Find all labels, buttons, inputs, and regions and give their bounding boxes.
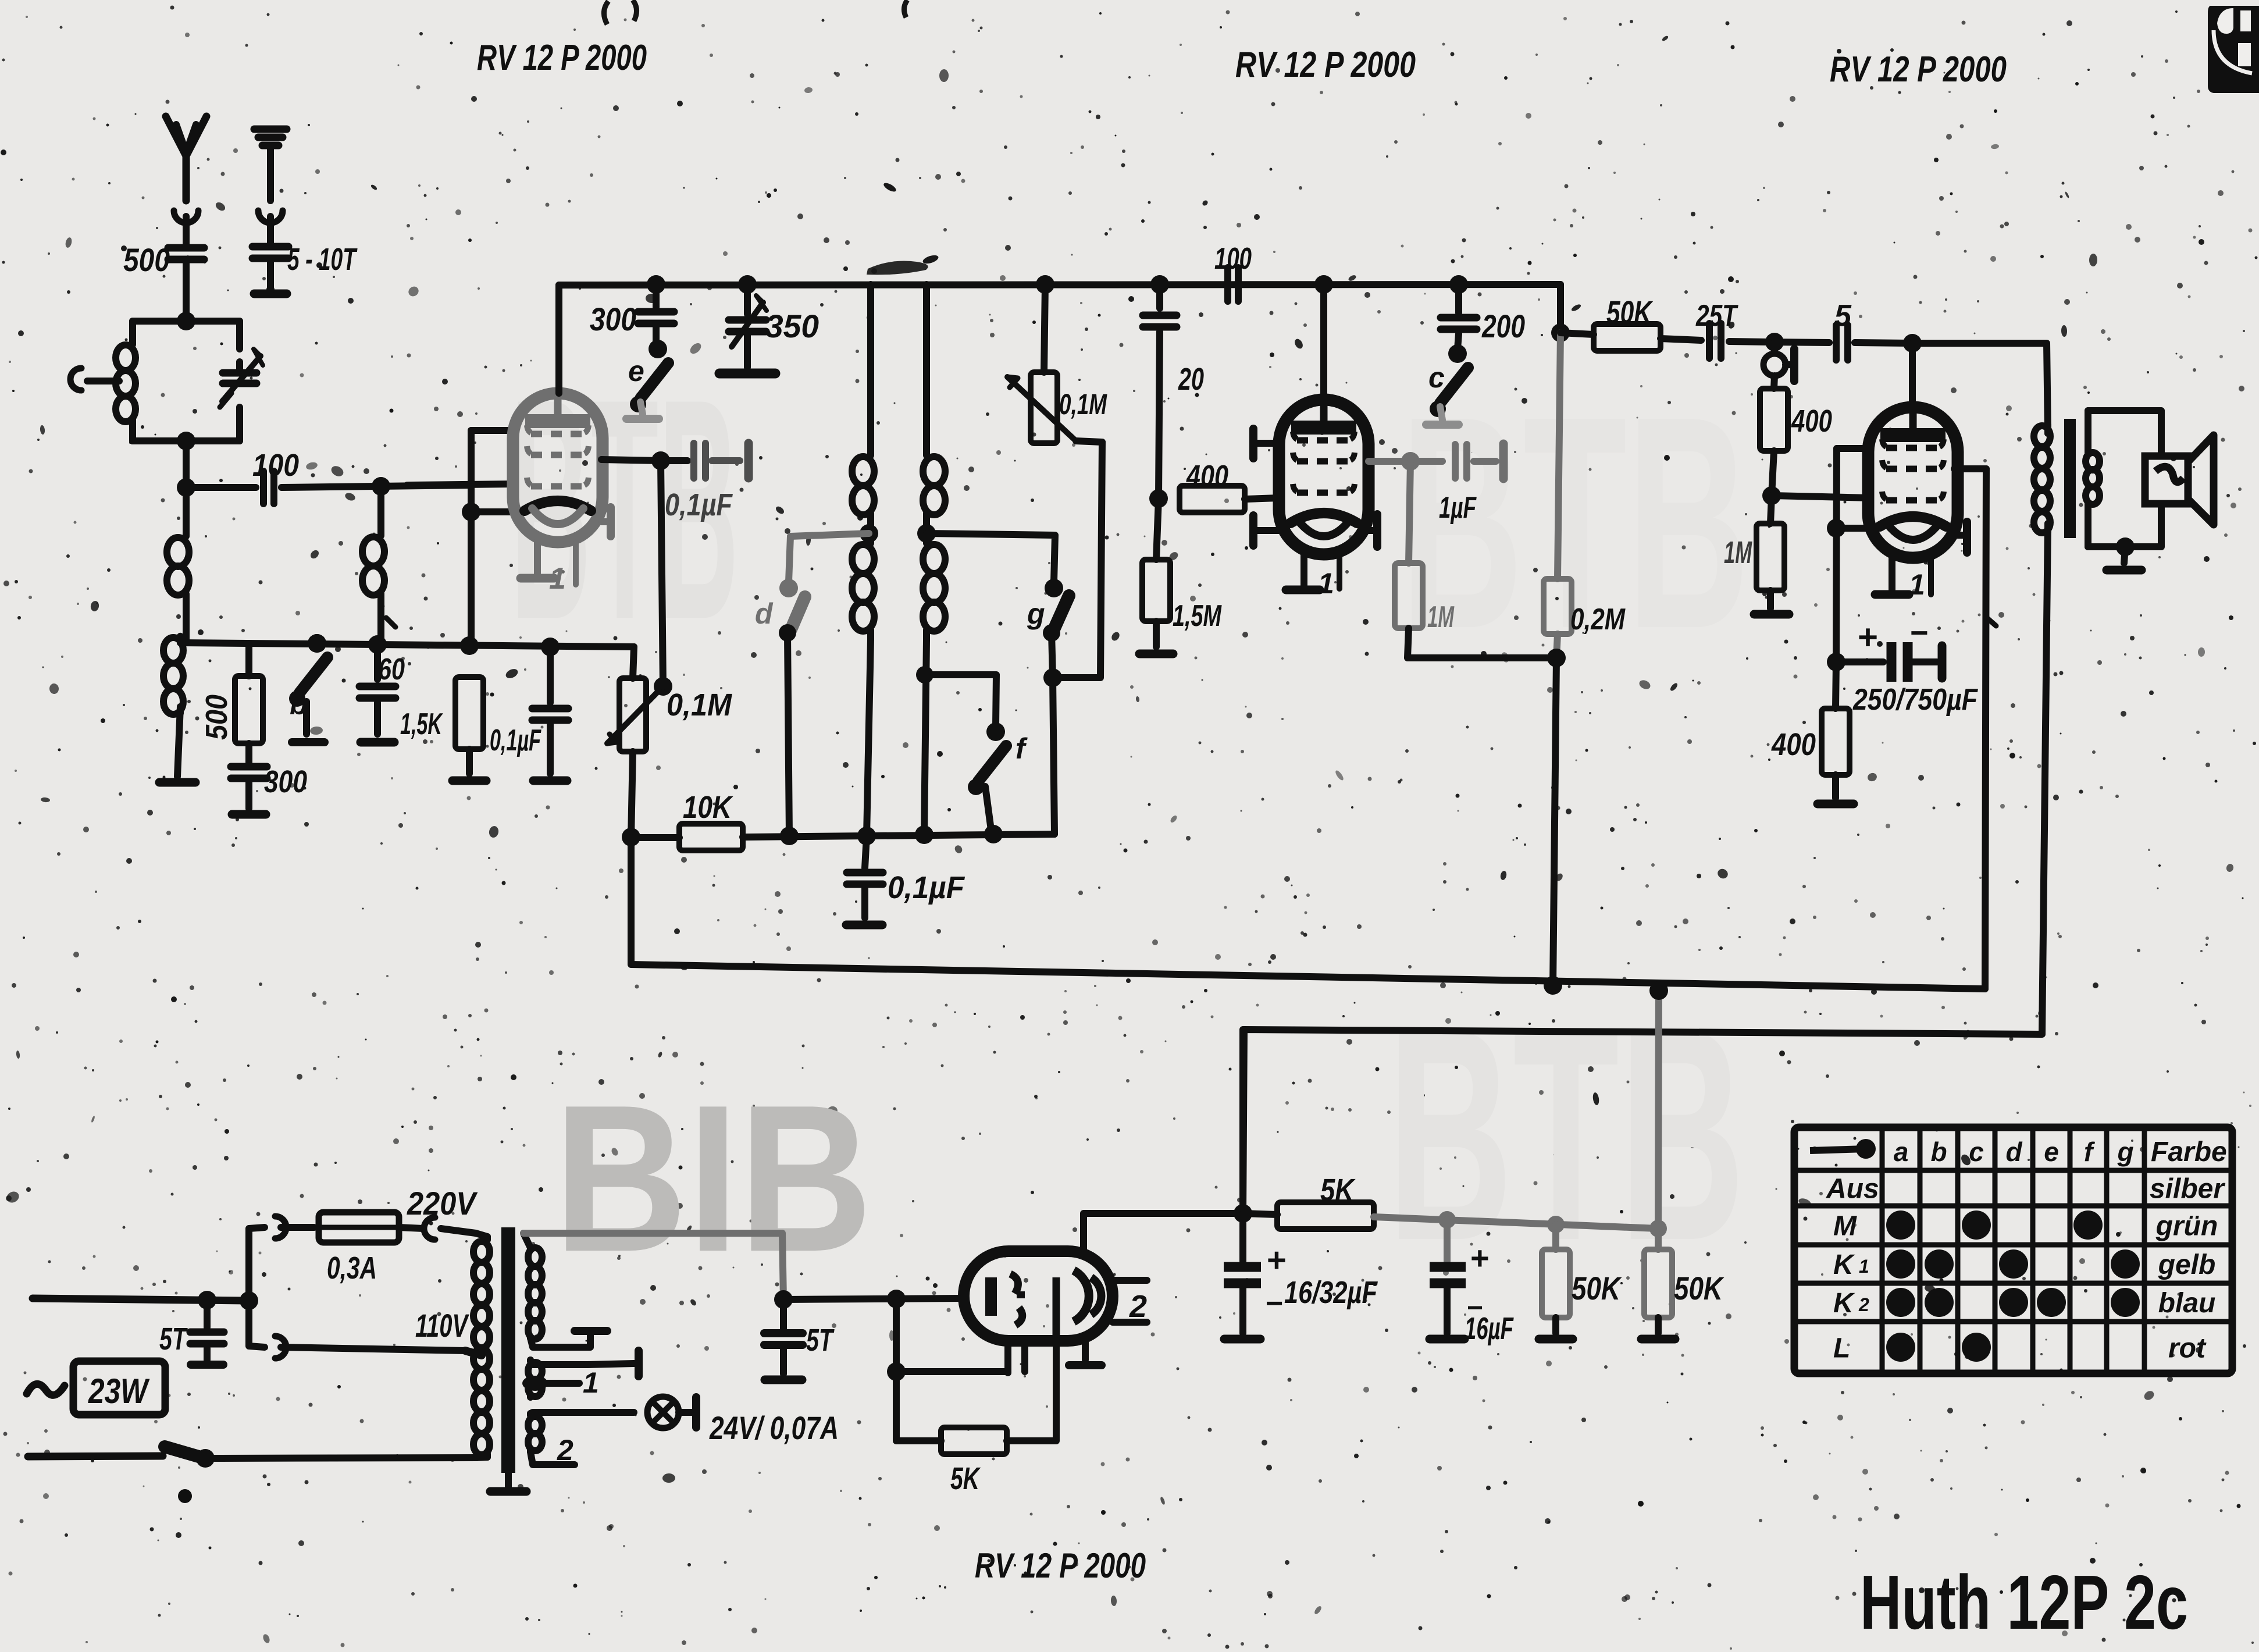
resistor 0,2M (gray)	[1544, 579, 1572, 634]
capacitor 5T (HT filter)	[780, 1299, 787, 1329]
svg-text:BIB: BIB	[554, 1062, 872, 1295]
switch g	[1045, 579, 1063, 597]
antenna	[166, 116, 186, 201]
svg-text:5K: 5K	[1320, 1173, 1356, 1208]
phone jack	[1771, 342, 1778, 352]
svg-text:50K: 50K	[1606, 294, 1654, 330]
svg-text:60: 60	[378, 653, 405, 686]
wire coil A tap to switch d	[790, 533, 869, 536]
node cathode junction tube1	[462, 503, 480, 521]
cathode bus of tube1	[180, 643, 634, 647]
node 300 cap	[647, 275, 665, 294]
resistor 400 (screen feed)	[1774, 376, 1775, 389]
svg-text:c: c	[1428, 361, 1445, 394]
electrolytic 16uF	[1444, 1220, 1451, 1261]
node bus A	[1544, 976, 1562, 995]
svg-text:BTB: BTB	[1387, 966, 1745, 1304]
vertical B+ riser	[1239, 1030, 1246, 1213]
resistor 50K (divider a)	[1552, 1224, 1559, 1249]
plug connector earth lead	[258, 211, 283, 223]
secondary heater winding 1	[527, 1360, 534, 1362]
svg-text:0,1µF: 0,1µF	[888, 870, 965, 905]
switch b	[308, 634, 326, 653]
tube V2 heater leads	[1300, 554, 1307, 586]
bias coil below node	[377, 486, 384, 536]
tube V2 cathode	[1291, 513, 1357, 523]
tube V1 anode lead to HT rail	[555, 285, 562, 393]
node speaker ground	[2116, 537, 2135, 556]
svg-text:Aus: Aus	[1826, 1174, 1879, 1205]
secondary bottom wire to speaker	[2088, 504, 2161, 547]
plug connector 220V left	[275, 1216, 286, 1238]
BTB logo stamp	[2208, 6, 2259, 93]
fuse 0,3A	[319, 1212, 399, 1242]
node mains/5T	[198, 1291, 216, 1309]
svg-text:g: g	[2117, 1137, 2133, 1167]
tube V4 anode lead to B+	[1084, 1213, 1243, 1251]
svg-text:RV 12 P 2000: RV 12 P 2000	[1830, 49, 2007, 90]
svg-text:24V/ 0,07A: 24V/ 0,07A	[709, 1409, 839, 1446]
svg-text:+: +	[1858, 618, 1878, 657]
AC symbol	[27, 1384, 65, 1395]
node branch	[240, 1291, 258, 1310]
node coilA	[857, 827, 876, 845]
tank cap trimmer arrow	[222, 356, 261, 401]
secondary heater winding 2	[527, 1414, 534, 1416]
svg-text:1: 1	[1859, 1256, 1869, 1277]
plug connector 110V	[275, 1336, 286, 1358]
svg-text:Farbe: Farbe	[2151, 1137, 2227, 1167]
tube V3 grid2 line to right riser	[1954, 465, 1986, 472]
vertical bus left of tube3	[1836, 448, 1837, 662]
tube V3 grids	[1886, 445, 1940, 451]
tube V3 anode	[1880, 428, 1946, 442]
HT rail top	[559, 284, 1560, 285]
resistor 1,5M grid leak	[1156, 499, 1159, 560]
node 0,2M bottom	[1547, 649, 1566, 667]
capacitor 100 (antenna coupling)	[263, 471, 274, 504]
svg-text:400: 400	[1791, 404, 1832, 439]
svg-text:RV 12 P 2000: RV 12 P 2000	[477, 38, 647, 78]
node tube3 grid	[1762, 486, 1781, 505]
node at coil2 top	[372, 477, 390, 496]
svg-text:0,2M: 0,2M	[1570, 603, 1626, 636]
vertical grid bus left of tube1	[468, 430, 475, 643]
triode/pentode tube V2 RV12P2000 envelope	[1279, 400, 1369, 554]
capacitor 500 (antenna series)	[168, 248, 204, 259]
tube V3 anode lead	[1909, 343, 1916, 407]
resistor 10K line	[622, 828, 640, 846]
resistor 5K (bleeder)	[941, 1427, 1007, 1454]
riser grid2 to ground bus A	[1985, 469, 1986, 989]
tube V4 bottom leads	[1004, 1341, 1011, 1373]
node 1541	[887, 1290, 906, 1308]
svg-text:b: b	[1930, 1137, 1947, 1167]
wire g node to pot 0,1M bottom riser	[1053, 442, 1102, 678]
heater tap arrow	[522, 1376, 548, 1391]
node f	[984, 825, 1003, 843]
output transformer secondary	[2085, 411, 2091, 453]
svg-text:blau: blau	[2158, 1288, 2216, 1319]
svg-text:2: 2	[1129, 1289, 1147, 1324]
capacitor 5T (mains filter)	[204, 1300, 211, 1327]
wire 1M bottom to 0,2M node	[1408, 628, 1556, 658]
mains lead upper	[33, 1298, 249, 1301]
tube V3 cathode terminal	[1954, 532, 1964, 539]
resistor 50K (divider b)	[1655, 1229, 1662, 1249]
svg-text:100: 100	[1214, 242, 1252, 276]
svg-text:0,3A: 0,3A	[327, 1251, 377, 1286]
wire coil A bottom to 10K line	[867, 640, 871, 836]
coupling capacitor 0,1uF (tube1 anode circuit)	[694, 443, 706, 478]
svg-text:350: 350	[765, 308, 819, 344]
wire cathode	[1836, 525, 1872, 532]
svg-text:1: 1	[1909, 568, 1925, 601]
wire to output transformer	[1912, 343, 2048, 433]
switch position table	[1794, 1127, 2232, 1373]
svg-text:L: L	[1833, 1333, 1850, 1364]
svg-text:0,1µF: 0,1µF	[665, 487, 733, 522]
svg-text:200: 200	[1481, 308, 1525, 344]
node coilB	[915, 825, 933, 844]
svg-text:400: 400	[1771, 727, 1816, 762]
node grid line	[177, 478, 195, 497]
wire to tube4 grid	[783, 1298, 964, 1299]
node 50K b	[1649, 1220, 1667, 1237]
svg-text:grün: grün	[2155, 1211, 2218, 1242]
svg-text:silber: silber	[2150, 1174, 2225, 1205]
transformer core ground	[505, 1473, 512, 1487]
trimmer capacitor 5-10T	[267, 216, 274, 243]
switch d	[779, 579, 798, 597]
svg-text:K: K	[1833, 1249, 1855, 1280]
IF coil B (detector grid)	[923, 284, 930, 451]
svg-text:110V: 110V	[415, 1307, 469, 1344]
svg-text:gelb: gelb	[2158, 1249, 2216, 1280]
wire cap5 to anode node	[1855, 343, 1912, 343]
wire switch d to 10K line	[788, 633, 789, 836]
svg-text:16/32µF: 16/32µF	[1284, 1275, 1378, 1310]
riser from bus A to B+ line (gray)	[1658, 991, 1659, 1229]
resistor 5K (smoothing)	[1243, 1213, 1277, 1215]
node grid2 tube2	[1401, 452, 1420, 471]
svg-text:1,5M: 1,5M	[1173, 599, 1222, 633]
node IF coil B tap	[917, 524, 936, 543]
tube V4 cathode lead vertical	[1053, 1277, 1060, 1341]
pot 0,1M arrow	[1007, 377, 1076, 441]
node tank bottom	[177, 432, 195, 450]
node tube3 anode	[1903, 334, 1922, 353]
svg-text:1M: 1M	[1427, 600, 1455, 634]
variable capacitor 350	[744, 284, 751, 314]
tank variable capacitor	[223, 373, 256, 383]
triode/pentode tube V1 RV12P2000 envelope	[513, 393, 603, 542]
svg-text:rot: rot	[2168, 1333, 2207, 1364]
tube V2 anode lead	[1320, 284, 1327, 400]
node 1,5K	[460, 636, 479, 655]
electrolytic 16/32uF	[1239, 1213, 1246, 1261]
svg-text:e: e	[628, 355, 644, 387]
svg-text:Huth 12P 2c: Huth 12P 2c	[1860, 1560, 2188, 1645]
tube V3 cathode	[1880, 517, 1946, 526]
speaker	[2145, 456, 2188, 504]
wire cap to terminal	[712, 457, 740, 464]
svg-text:+: +	[1470, 1240, 1490, 1276]
svg-text:−: −	[1266, 1287, 1283, 1320]
tube V2 grid3 terminal	[1257, 527, 1279, 534]
wire 50K to 25T cap	[1661, 339, 1701, 340]
svg-text:c: c	[1969, 1137, 1984, 1167]
tube V4 heater ground	[1082, 1341, 1089, 1360]
svg-text:23W: 23W	[88, 1372, 149, 1411]
riser wiper to grid2 line	[661, 461, 663, 686]
node rectifier input	[774, 1290, 793, 1309]
svg-text:2: 2	[1858, 1294, 1869, 1315]
node 16uF	[1438, 1211, 1456, 1229]
antenna plug connector	[174, 211, 198, 223]
node wiper to grid2 riser	[654, 677, 672, 696]
potentiometer 0,1M (regeneration)	[633, 647, 634, 678]
svg-text:d: d	[755, 597, 774, 630]
tube V3 grid1 line to left bus	[1837, 445, 1868, 452]
capacitor 25T	[1709, 323, 1721, 358]
svg-text:b: b	[290, 688, 308, 721]
svg-text:5T: 5T	[159, 1322, 188, 1357]
capacitor 300 (padding)	[653, 284, 660, 307]
table header arrow symbol	[1810, 1149, 1866, 1151]
svg-text:100: 100	[252, 448, 299, 483]
svg-text:300: 300	[590, 301, 636, 337]
resistor 400 (cathode bias tube3)	[1836, 662, 1836, 708]
pickup coil terminal arc	[70, 368, 81, 390]
ground bus A to right section	[631, 838, 1985, 989]
tube V4 inner dashes	[1010, 1274, 1022, 1325]
svg-text:5K: 5K	[950, 1461, 981, 1496]
wire grid3 into tube1	[407, 484, 514, 485]
resistor 50K (coupling)	[1560, 333, 1594, 334]
wire antenna to cap 500	[183, 216, 190, 244]
svg-text:400: 400	[1186, 460, 1228, 493]
node 0,1uF	[541, 638, 560, 656]
coil to ground left	[177, 636, 184, 643]
capacitor 100 (series in HT rail)	[1228, 268, 1238, 301]
power transformer core	[501, 1227, 515, 1473]
wire jack node to cap 5	[1775, 342, 1829, 343]
wire grid node into tube3	[1772, 496, 1870, 498]
capacitor 20	[1156, 284, 1163, 308]
svg-text:2: 2	[557, 1434, 573, 1466]
capacitor 0,1uF (AVC)	[865, 836, 867, 868]
wire tube1 grid1 stub	[471, 427, 514, 434]
wire cathode circuit	[896, 1299, 1008, 1372]
wire 110V tap arrow to transformer	[281, 1347, 465, 1351]
node 50K feed	[1551, 323, 1570, 342]
svg-text:1: 1	[1318, 567, 1334, 600]
node bus A riser	[1649, 981, 1668, 1000]
power rating box 23W	[73, 1361, 165, 1415]
node 250/750uF	[1827, 653, 1845, 671]
mains switch lever	[165, 1447, 201, 1457]
svg-text:500: 500	[200, 695, 234, 740]
node d	[780, 827, 799, 845]
svg-text:16µF: 16µF	[1465, 1311, 1514, 1346]
svg-text:50K: 50K	[1674, 1270, 1724, 1306]
capacitor 60	[374, 645, 381, 679]
svg-text:50K: 50K	[1572, 1270, 1622, 1306]
earth symbol (5-10T branch)	[267, 147, 274, 201]
tube V1 cathode side terminal	[601, 518, 611, 525]
svg-text:RV 12 P 2000: RV 12 P 2000	[975, 1546, 1146, 1585]
tube V2 anode	[1291, 421, 1356, 435]
svg-text:M: M	[1833, 1211, 1857, 1242]
wire primary bottom to B+ rail corner	[1243, 524, 2048, 1213]
tube V1 heater lead + ground	[534, 542, 541, 574]
svg-text:300: 300	[264, 764, 307, 799]
wire pot bottom to riser	[1076, 441, 1102, 442]
switch label circle	[178, 1489, 192, 1503]
node grid2 / pot wiper	[651, 451, 670, 470]
tube V2 grid1 terminal	[1257, 440, 1279, 447]
wire pot bottom to 10K	[631, 752, 633, 838]
tube V1 cathode	[525, 501, 591, 511]
svg-text:1: 1	[583, 1366, 599, 1399]
tube V1 grids	[531, 431, 585, 437]
svg-text:1,5K: 1,5K	[400, 707, 443, 741]
wire 400 to grid node	[1772, 451, 1774, 496]
resistor 500 (vertical)	[245, 643, 252, 676]
svg-text:5T: 5T	[806, 1323, 835, 1358]
B+ line from HT winding (gray)	[523, 1233, 783, 1299]
svg-text:0,1M: 0,1M	[667, 688, 732, 722]
antenna tank circuit loop	[133, 318, 240, 325]
wire coil B tap to switch g riser	[927, 533, 1055, 582]
table dots	[1886, 1210, 1915, 1240]
node 350 cap	[738, 275, 757, 294]
svg-text:1: 1	[549, 562, 566, 596]
tube V3 heater arc	[1887, 524, 1939, 540]
capacitor 5	[1836, 325, 1848, 360]
wire 5K to tube cathode riser	[1007, 1341, 1056, 1441]
smudge	[867, 261, 928, 275]
wire cathode to left bus	[471, 508, 515, 515]
switch e	[653, 327, 660, 344]
node cap60	[368, 635, 387, 654]
svg-text:1µF: 1µF	[1439, 491, 1477, 525]
svg-text:1M: 1M	[1724, 535, 1752, 570]
tube V4 grid bar	[985, 1277, 997, 1316]
tube V1 grid2 line to coupling cap	[601, 460, 661, 461]
tube V2 cathode terminal	[1369, 527, 1377, 534]
dial lamp 24V 0,07A	[647, 1397, 679, 1428]
tick mark	[1987, 618, 1996, 626]
wire cap500 to tuned circuit	[183, 263, 190, 321]
svg-text:RV 12 P 2000: RV 12 P 2000	[1235, 45, 1416, 85]
node B+ 2137	[1234, 1204, 1252, 1223]
tube V2 grids	[1297, 437, 1351, 444]
wire tank bottom to grid node	[183, 441, 190, 487]
tube V1 anode	[525, 414, 590, 428]
output transformer primary	[2044, 425, 2051, 434]
node HT rail / pot 0,1M	[1036, 275, 1054, 294]
wire to node jack	[1729, 341, 1775, 342]
output transformer core	[2064, 419, 2076, 538]
wire cap100 to tube1 grid	[282, 485, 471, 487]
wire grid node down to 1M	[1770, 496, 1772, 524]
triode/pentode tube V3 RV12P2000 envelope	[1868, 407, 1958, 558]
B+ distribution line (gray)	[1374, 1217, 1658, 1229]
switch c	[1448, 344, 1467, 363]
svg-text:−: −	[1910, 615, 1929, 650]
node grid stopper 400	[1149, 489, 1168, 508]
plug connector 220V right	[399, 1227, 423, 1229]
tube V4 side stubs and pin label 2	[1113, 1277, 1147, 1284]
tube V3 heater leads	[1889, 558, 1895, 590]
tube V2 heater arc	[1298, 521, 1349, 536]
tube V1 heater arc	[532, 508, 583, 524]
riser 10K line to switch g node	[1053, 678, 1054, 834]
wire coil B bottom to 10K line	[924, 640, 927, 834]
resistor 400 (grid)	[1180, 486, 1245, 512]
pot 0,1M wiper arrow	[607, 686, 663, 743]
rectifier tube V4 RV12P2000 envelope (horizontal)	[964, 1251, 1113, 1341]
node 2358	[887, 1362, 906, 1381]
svg-text:220V: 220V	[407, 1185, 478, 1222]
secondary top wire to speaker	[2088, 411, 2161, 455]
node jack	[1765, 333, 1784, 351]
svg-text:25T: 25T	[1695, 299, 1738, 333]
capacitor 300 below resistor 500	[245, 743, 252, 763]
stray mark parenthesis	[604, 1, 608, 24]
tube V2 grid2 line (gray) to 1uF	[1369, 458, 1410, 465]
IF coil A (tube1 anode load)	[867, 284, 874, 451]
corner HT rail down to 50K	[1557, 284, 1564, 333]
node antenna/tank top	[177, 312, 195, 330]
node IF coil A tap	[860, 524, 878, 543]
wire switch to transformer	[205, 1458, 477, 1458]
svg-text:g: g	[1027, 597, 1045, 630]
svg-text:500: 500	[123, 241, 170, 278]
svg-text:5: 5	[1834, 299, 1852, 333]
capacitor 1uF (gray)	[1455, 444, 1467, 478]
node g bottom	[1043, 668, 1062, 687]
RF choke coil below grid node	[183, 487, 190, 536]
capacitor 200	[1441, 318, 1477, 329]
wire grid node to coupling cap 100	[186, 484, 256, 491]
electrolytic capacitor 250/750uF	[1836, 658, 1883, 665]
capacitor 0,1uF (cathode)	[547, 647, 554, 703]
node switch b	[308, 634, 326, 653]
svg-text:a: a	[1894, 1137, 1909, 1167]
mains lead lower + switch a	[28, 1456, 163, 1457]
wire down to 5K	[896, 1372, 941, 1441]
svg-text:d: d	[2005, 1137, 2022, 1167]
tank coil L1	[129, 344, 136, 344]
potentiometer 0,1M (volume)	[1044, 284, 1045, 372]
secondary HT winding	[523, 1233, 530, 1248]
switch f	[924, 675, 996, 726]
svg-text:20: 20	[1178, 362, 1204, 397]
resistor 1M (grid leak, gray)	[1409, 461, 1410, 563]
node 20 cap on rail	[1150, 275, 1169, 294]
node cathode tube3	[1827, 519, 1845, 537]
svg-text:0,1M: 0,1M	[1059, 388, 1107, 421]
resistor 1,5K	[455, 677, 483, 749]
svg-text:5 - 10T: 5 - 10T	[287, 242, 358, 277]
wire 0,2M to ground bus A	[1553, 658, 1556, 985]
svg-text:250/750µF: 250/750µF	[1852, 683, 1978, 717]
power transformer primary	[484, 1237, 491, 1240]
svg-text:K: K	[1833, 1288, 1855, 1319]
